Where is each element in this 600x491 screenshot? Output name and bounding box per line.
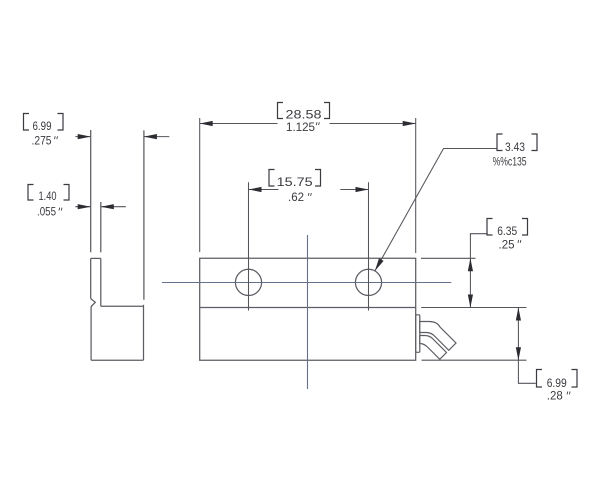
- svg-text:6.99: 6.99: [33, 121, 52, 133]
- svg-text:%%c135: %%c135: [493, 157, 527, 169]
- svg-text:6.35: 6.35: [497, 226, 517, 238]
- svg-text:1.125: 1.125: [286, 122, 315, 134]
- svg-text:1.40: 1.40: [39, 191, 57, 203]
- svg-text:28.58: 28.58: [286, 110, 322, 122]
- svg-text:.25: .25: [499, 240, 515, 252]
- svg-text:6.99: 6.99: [547, 378, 567, 390]
- svg-text:.055: .055: [37, 206, 56, 218]
- svg-text:15.75: 15.75: [277, 177, 313, 189]
- svg-text:.28: .28: [547, 391, 563, 403]
- svg-text:.275: .275: [32, 135, 52, 147]
- svg-text:.62: .62: [288, 192, 304, 204]
- svg-text:3.43: 3.43: [505, 142, 525, 154]
